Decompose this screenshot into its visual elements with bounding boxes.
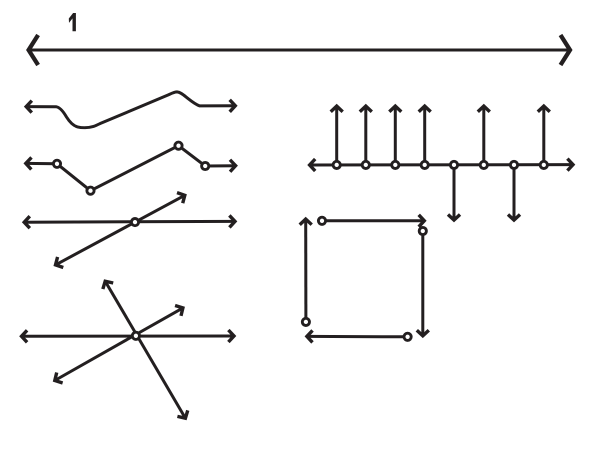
node on zigzag 1 bbox=[53, 160, 60, 167]
comb node 1 bbox=[333, 161, 340, 168]
comb baseline double arrow bbox=[310, 163, 573, 166]
square left edge arrow bbox=[304, 219, 307, 322]
comb node 7 bbox=[510, 161, 517, 168]
square bottom node bbox=[404, 333, 411, 340]
diagonal double arrow crossing third row bbox=[56, 195, 185, 265]
square top-left node bbox=[318, 217, 325, 224]
dimension arrow (top, double-headed) bbox=[29, 49, 570, 52]
comb up arrow 3 bbox=[394, 106, 397, 165]
star shallow diagonal double arrow bbox=[55, 308, 183, 381]
comb down arrow 7 bbox=[513, 165, 516, 220]
comb node 2 bbox=[362, 161, 369, 168]
comb node 4 bbox=[421, 161, 428, 168]
node on zigzag 4 bbox=[202, 162, 209, 169]
comb up arrow 1 bbox=[335, 106, 338, 165]
label 1 bbox=[69, 13, 76, 31]
wavy curve with arrows bbox=[26, 92, 235, 128]
square top edge arrow bbox=[322, 219, 424, 222]
horizontal double arrow (third row) bbox=[24, 220, 235, 224]
node on zigzag 2 bbox=[87, 187, 94, 194]
comb up arrow 6 bbox=[482, 106, 485, 165]
square top-right node bbox=[419, 227, 426, 234]
comb node 5 bbox=[450, 161, 457, 168]
comb up arrow 2 bbox=[364, 106, 367, 165]
star horizontal double arrow bbox=[22, 335, 235, 338]
square left node bbox=[302, 318, 309, 325]
comb up arrow 8 bbox=[542, 106, 545, 165]
comb node 6 bbox=[480, 161, 487, 168]
node on zigzag 3 bbox=[175, 142, 182, 149]
comb node 8 bbox=[540, 161, 547, 168]
node at star center bbox=[132, 332, 139, 339]
star steep diagonal double arrow bbox=[105, 281, 185, 418]
square right edge arrow bbox=[421, 231, 424, 336]
node at crossing of third row bbox=[131, 219, 138, 226]
zigzag polyline with arrows bbox=[26, 146, 236, 191]
comb node 3 bbox=[392, 161, 399, 168]
comb down arrow 5 bbox=[453, 165, 456, 220]
square bottom edge arrow bbox=[307, 335, 408, 338]
comb up arrow 4 bbox=[423, 106, 426, 165]
